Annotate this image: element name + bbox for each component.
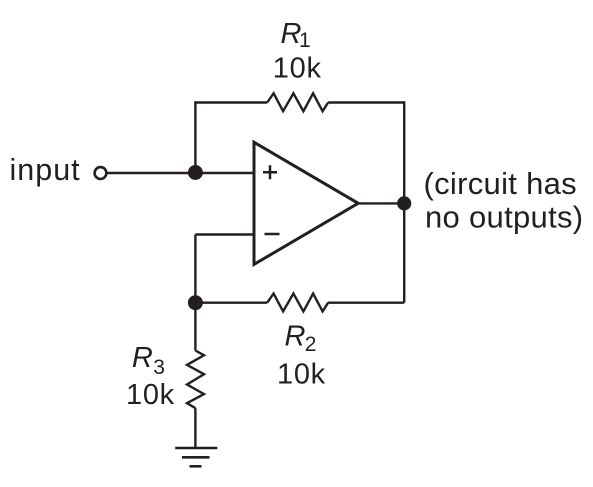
resistor R3 zigzag (187, 351, 204, 409)
node A junction dot (188, 165, 203, 180)
node output junction dot (397, 196, 411, 210)
ground bar 3 (190, 465, 202, 468)
wire junction B down to R3 (194, 303, 196, 351)
wire op-amp output (358, 202, 405, 204)
wire input to op-amp + input (107, 172, 254, 174)
svg-text:10k: 10k (277, 358, 326, 390)
svg-text:(circuit has: (circuit has (424, 166, 577, 201)
svg-text:no outputs): no outputs) (425, 199, 583, 234)
ground bar 2 (182, 456, 210, 459)
wire right rail down to bottom rail (403, 101, 405, 302)
wire junction A up to feedback rail (194, 103, 196, 174)
op-amp U1 triangle (254, 142, 358, 264)
svg-text:10k: 10k (273, 53, 322, 85)
wire top rail right segment (328, 101, 404, 103)
svg-text:input: input (10, 153, 81, 187)
input terminal circle (95, 167, 107, 179)
svg-text:R: R (285, 321, 306, 353)
op-amp minus input marker (265, 233, 280, 236)
node B junction dot (188, 295, 203, 310)
wire minus input down to junction B (194, 235, 196, 303)
wire op-amp minus input (195, 233, 254, 235)
svg-text:3: 3 (153, 356, 165, 379)
svg-text:1: 1 (299, 29, 311, 52)
wire R3 to ground (194, 408, 196, 448)
resistor R1 zigzag (267, 93, 328, 111)
svg-text:10k: 10k (126, 379, 175, 411)
resistor R2 zigzag (267, 294, 328, 312)
svg-text:R: R (132, 342, 153, 374)
wire bottom rail right segment (328, 302, 404, 304)
svg-text:2: 2 (305, 333, 317, 356)
ground bar 1 (175, 447, 217, 450)
op-amp plus input marker (263, 165, 277, 179)
wire bottom rail left segment (195, 302, 267, 304)
wire top rail left segment (194, 101, 267, 103)
